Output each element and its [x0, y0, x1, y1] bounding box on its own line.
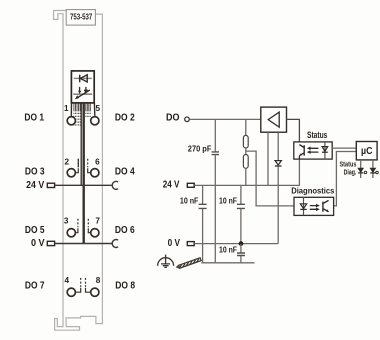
svg-text:8: 8	[96, 276, 101, 285]
svg-text:1: 1	[64, 104, 69, 113]
Diagnostics LED lead	[303, 197, 305, 215]
capacitor 270 pF plates	[212, 152, 219, 155]
resistor R1	[243, 135, 248, 148]
internal bus 0V feed wire	[82, 103, 84, 244]
LED diag open contact	[376, 171, 378, 173]
Diagnostics phototransistor	[323, 200, 329, 211]
LED status bottom lead	[360, 173, 362, 178]
Diagnostics light arrows	[310, 206, 318, 210]
svg-text:DO 3: DO 3	[25, 167, 45, 178]
24V terminal square right	[187, 183, 194, 187]
terminal 2 dashed link	[77, 159, 79, 168]
LED diag bottom lead	[372, 173, 374, 178]
svg-text:DO 8: DO 8	[115, 281, 135, 292]
diode D2 top lead	[277, 132, 279, 160]
svg-text:4: 4	[65, 276, 70, 285]
LED status	[358, 168, 363, 172]
wire 24V module	[55, 184, 113, 186]
svg-text:DO 6: DO 6	[115, 225, 135, 236]
Status emitter lead	[298, 156, 300, 159]
resistor R2	[243, 155, 248, 169]
chassis ground symbol	[177, 258, 201, 269]
module outline	[54, 11, 103, 331]
label box 753-537	[66, 10, 95, 26]
output protection left arrow	[79, 87, 81, 91]
microcontroller uC box	[356, 142, 377, 160]
output protection diagonal arrow	[77, 90, 90, 98]
Status phototransistor emitter arrow	[299, 153, 302, 156]
svg-text:0 V: 0 V	[168, 238, 180, 249]
svg-text:Diag.: Diag.	[344, 170, 357, 177]
wire diagnostics to uC	[334, 152, 357, 206]
terminal 4 dashed link	[80, 278, 82, 287]
svg-text:2: 2	[65, 158, 70, 167]
svg-text:DO: DO	[166, 112, 180, 123]
wire 0V rail	[194, 243, 278, 245]
svg-text:24 V: 24 V	[163, 179, 180, 190]
capacitor C1 top lead	[202, 185, 204, 204]
Diagnostics phototransistor emitter arrow	[326, 209, 329, 212]
0V jumper contact hook	[112, 240, 118, 248]
optocoupler Diagnostics box	[294, 197, 334, 215]
internal hatch right	[86, 103, 91, 117]
wire lead to terminal 1	[70, 103, 72, 116]
terminal 2	[67, 169, 75, 177]
LED diag lead	[372, 160, 374, 168]
svg-text:µC: µC	[361, 146, 373, 157]
svg-text:0 V: 0 V	[31, 238, 45, 249]
svg-text:Diagnostics: Diagnostics	[291, 186, 334, 196]
capacitor C1 plates	[199, 204, 207, 208]
svg-text:DO 5: DO 5	[25, 225, 45, 236]
LED diag cathode bar	[370, 172, 375, 174]
wire lead to terminal 5	[93, 103, 95, 116]
capacitor C3 plates	[237, 253, 245, 256]
terminal 5	[91, 117, 99, 125]
diode D1 wire	[74, 77, 92, 79]
capacitor C1 bottom lead	[202, 209, 204, 263]
svg-text:DO 1: DO 1	[24, 112, 44, 123]
optocoupler Status box	[294, 142, 332, 159]
capacitor C3 bottom lead	[240, 256, 242, 263]
svg-text:Status: Status	[307, 130, 327, 140]
terminal 7 dashed link	[87, 219, 89, 228]
terminal 4 tick	[75, 288, 80, 292]
terminal 3	[67, 229, 75, 237]
amplifier triangle	[268, 112, 279, 127]
wire 24V rail	[194, 159, 299, 186]
svg-text:3: 3	[64, 216, 69, 225]
terminal 2 tick	[75, 159, 78, 173]
terminal 6 dashed link	[87, 159, 89, 168]
terminal 6	[91, 169, 99, 177]
svg-text:DO 2: DO 2	[115, 112, 135, 123]
svg-text:270 pF: 270 pF	[188, 143, 212, 153]
resistor bottom lead to 24V rail	[245, 168, 247, 185]
terminal 6 tick	[88, 168, 91, 172]
diode D2 cathode bar	[275, 165, 282, 167]
LED status cathode bar	[358, 172, 363, 174]
resistor chain top lead	[245, 119, 247, 135]
terminal 1	[67, 117, 75, 125]
node DO open terminal	[185, 117, 190, 122]
svg-text:7: 7	[95, 216, 100, 225]
diode D2 bottom lead	[277, 167, 279, 244]
svg-text:6: 6	[95, 158, 100, 167]
Diagnostics LED cathode bar	[300, 208, 306, 210]
svg-text:10 nF: 10 nF	[219, 244, 237, 254]
24V jumper contact hook	[112, 181, 118, 189]
svg-text:5: 5	[96, 104, 101, 113]
Status light arrows	[309, 148, 318, 152]
internal hatch left	[74, 103, 80, 125]
wire 0V module	[55, 243, 113, 245]
svg-text:10 nF: 10 nF	[219, 196, 237, 206]
wire DO to amplifier	[189, 118, 260, 120]
svg-text:753-537: 753-537	[70, 13, 93, 22]
Status LED cathode bar	[322, 151, 328, 153]
internal bus 24V feed wire	[80, 103, 82, 185]
terminal 3 tick	[75, 228, 78, 232]
capacitor C2 bottom lead	[240, 209, 242, 244]
capacitor C2 plates	[237, 204, 245, 208]
diode D1 cathode bar	[79, 75, 81, 83]
LED status lead	[360, 160, 362, 168]
junction dot 0V	[239, 241, 244, 246]
diode D2	[275, 161, 281, 165]
svg-text:Status: Status	[340, 161, 357, 168]
terminal 3 dashed link	[77, 219, 79, 228]
terminal 7 tick	[88, 228, 90, 232]
capacitor 270 pF bottom lead	[214, 155, 216, 263]
capacitor C2 top lead	[240, 185, 242, 204]
svg-text:10 nF: 10 nF	[180, 196, 199, 206]
terminal 8 dashed link	[85, 278, 87, 287]
Diagnostics LED	[300, 204, 306, 209]
wire amplifier output	[287, 119, 300, 146]
output protection right arrow	[84, 87, 88, 91]
svg-text:DO 7: DO 7	[25, 281, 45, 292]
Status LED	[322, 147, 328, 152]
LED status open contact	[364, 171, 366, 173]
output protection wire	[73, 93, 92, 95]
terminal 8 tick	[86, 288, 91, 292]
Status phototransistor	[299, 145, 304, 156]
earth ground symbol	[158, 255, 174, 268]
terminal 7	[91, 229, 99, 237]
wire ground rail	[201, 262, 254, 264]
24V terminal square	[47, 183, 54, 187]
capacitor 270 pF top lead	[214, 119, 216, 151]
capacitor C3 top lead	[240, 244, 242, 253]
LED diag	[370, 168, 375, 172]
wire amplifier supply lead	[267, 132, 269, 185]
Status LED lead	[324, 142, 326, 159]
wire divider tap to diagnostics	[246, 151, 294, 206]
terminal 8	[91, 288, 99, 296]
0V terminal square	[47, 241, 54, 245]
0V terminal square right	[187, 242, 194, 246]
svg-text:DO 4: DO 4	[115, 167, 135, 178]
wire Status to uC	[332, 147, 356, 149]
terminal 4	[67, 288, 75, 296]
wire between resistors	[245, 148, 247, 155]
amplifier box	[261, 107, 287, 132]
diode D1 triangle	[80, 75, 87, 82]
svg-text:24 V: 24 V	[26, 180, 44, 191]
electronics box	[71, 71, 94, 103]
